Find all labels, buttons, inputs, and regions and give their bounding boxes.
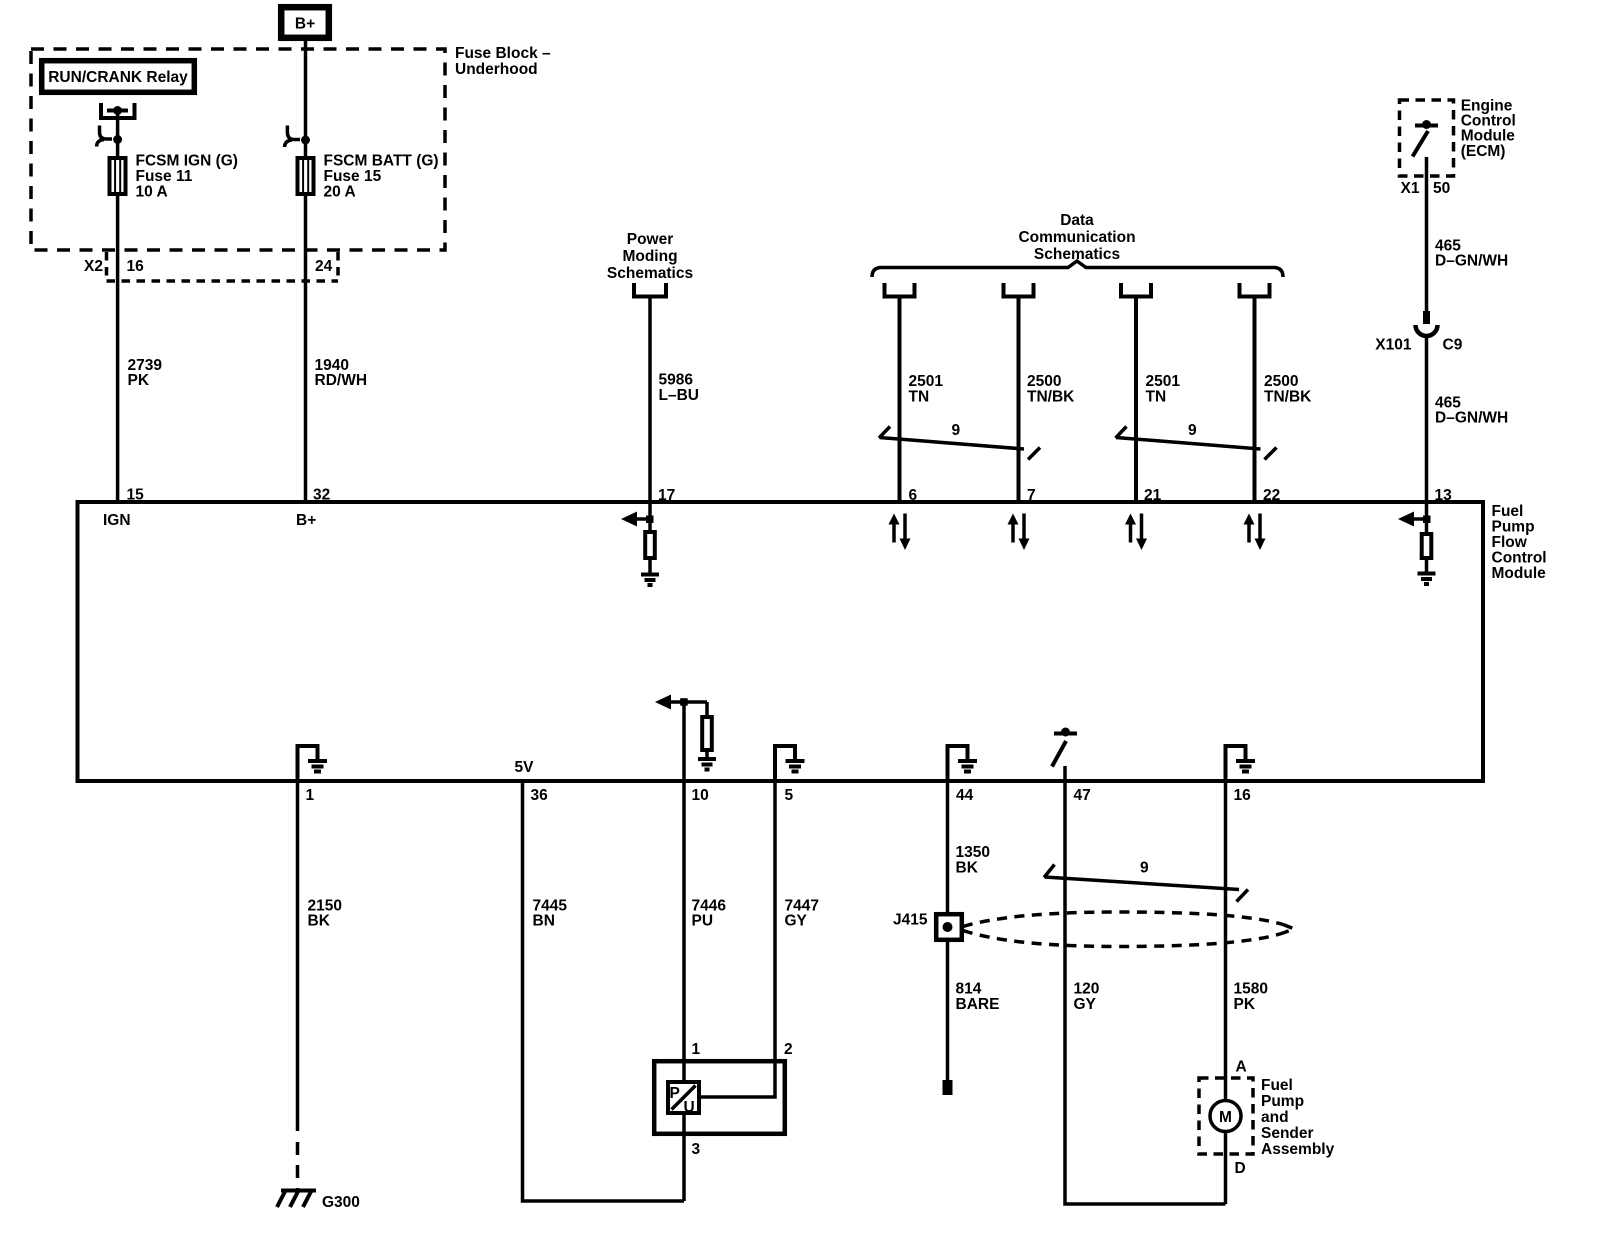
svg-text:C9: C9 <box>1443 337 1463 354</box>
svg-text:47: 47 <box>1074 787 1091 804</box>
svg-text:D–GN/WH: D–GN/WH <box>1435 410 1508 427</box>
svg-text:Fuel: Fuel <box>1261 1077 1293 1094</box>
wire 1940 RD/WH <box>304 196 308 502</box>
splice J415 <box>936 914 962 940</box>
svg-text:22: 22 <box>1263 487 1280 504</box>
svg-text:Flow: Flow <box>1492 534 1528 551</box>
svg-text:Pump: Pump <box>1261 1093 1304 1110</box>
svg-text:X1: X1 <box>1401 180 1420 197</box>
svg-text:B+: B+ <box>295 16 315 33</box>
svg-text:814: 814 <box>956 981 982 998</box>
svg-text:21: 21 <box>1144 487 1162 504</box>
connector X2 dashed outline <box>107 252 339 281</box>
label Fuel Pump and Sender Assembly <box>1261 1077 1335 1158</box>
svg-text:PK: PK <box>128 372 150 389</box>
svg-text:9: 9 <box>1188 422 1197 439</box>
wire 814 BARE <box>946 940 950 1080</box>
resistor (pin 17 termination) <box>645 532 655 558</box>
svg-text:Assembly: Assembly <box>1261 1141 1335 1158</box>
label Engine Control Module (ECM) <box>1461 98 1516 161</box>
label Data Communication Schematics <box>1018 212 1135 263</box>
brace (data communication) <box>872 261 1283 277</box>
wire dashed to G300 <box>296 1142 300 1191</box>
svg-text:Communication: Communication <box>1018 229 1135 246</box>
wire 7447 GY <box>773 781 777 1059</box>
wire 7446 PU <box>682 781 686 1059</box>
resistor (pin 10 pull-up) <box>705 702 709 717</box>
inline connector X101 C9 <box>1416 311 1438 336</box>
label Power Moding Schematics <box>607 231 693 282</box>
svg-text:7: 7 <box>1027 487 1036 504</box>
svg-text:2: 2 <box>784 1041 793 1058</box>
wire resistor to ground <box>1425 558 1429 573</box>
ground G300 <box>277 1191 316 1208</box>
svg-text:Schematics: Schematics <box>607 265 693 282</box>
P/U transducer symbol <box>668 1082 699 1116</box>
svg-text:IGN: IGN <box>103 512 131 529</box>
svg-text:TN/BK: TN/BK <box>1264 389 1312 406</box>
ground symbol inside module at pin 16 <box>1226 746 1256 781</box>
wire resistor to ground <box>705 750 709 758</box>
ground symbol inside module at pin 5 <box>775 746 805 781</box>
ground symbol inside module at pin 1 <box>298 746 328 781</box>
serial data arrows pin 6 <box>889 514 911 551</box>
svg-text:Module: Module <box>1461 128 1516 145</box>
svg-text:D–GN/WH: D–GN/WH <box>1435 253 1508 270</box>
svg-text:50: 50 <box>1433 180 1450 197</box>
wire 2501 TN (pin 21) <box>1134 297 1138 503</box>
serial data arrows pin 21 <box>1125 514 1147 551</box>
svg-text:BARE: BARE <box>956 996 1000 1013</box>
svg-text:Fuse 11: Fuse 11 <box>136 168 193 185</box>
fuse block - underhood dashed box <box>31 49 445 250</box>
wire from B+ to fuse 15 <box>304 41 308 156</box>
ground (pin 13) <box>1418 574 1436 585</box>
twisted pair symbol 9 (pins 47-16) <box>1044 860 1248 902</box>
svg-text:TN: TN <box>909 389 930 406</box>
wire 7445 BN <box>523 781 685 1201</box>
serial data arrows pin 22 <box>1244 514 1266 551</box>
wire pin13 to resistor <box>1425 502 1429 534</box>
svg-text:17: 17 <box>658 487 675 504</box>
twisted pair symbol 9 (pins 6-7) <box>879 422 1040 460</box>
svg-text:36: 36 <box>531 787 549 804</box>
ground (pin 10) <box>698 759 716 770</box>
off-page connector (pin 22) <box>1240 283 1270 297</box>
wire pin17 to resistor <box>648 502 652 532</box>
svg-text:TN: TN <box>1146 389 1167 406</box>
svg-text:1: 1 <box>306 787 315 804</box>
svg-text:2501: 2501 <box>909 373 944 390</box>
bare wire end <box>943 1080 953 1095</box>
svg-text:6: 6 <box>909 487 918 504</box>
svg-text:20 A: 20 A <box>324 184 356 201</box>
svg-text:X101: X101 <box>1375 337 1412 354</box>
wire FPR pin1 internal <box>682 1059 686 1082</box>
svg-text:Module: Module <box>1492 565 1547 582</box>
resistor (pin 13 termination) <box>1422 534 1432 558</box>
ground (pin 17) <box>641 575 659 586</box>
svg-text:13: 13 <box>1435 487 1453 504</box>
wire pump D to bottom <box>1224 1132 1228 1205</box>
switch symbol inside module at pin 47 <box>1052 728 1077 782</box>
svg-text:3: 3 <box>692 1141 701 1158</box>
svg-text:1: 1 <box>692 1041 701 1058</box>
wire FPR pin2 internal <box>699 1061 775 1097</box>
wire 1580 PK <box>1224 781 1228 1078</box>
fuse F15 20A <box>298 158 314 194</box>
svg-text:Fuse Block –: Fuse Block – <box>455 45 551 62</box>
svg-text:9: 9 <box>952 422 961 439</box>
module ECM dashed box <box>1400 100 1454 176</box>
switch contact at fuse 15 <box>285 126 311 148</box>
svg-text:G300: G300 <box>322 1194 360 1211</box>
svg-text:16: 16 <box>1234 787 1252 804</box>
svg-text:PK: PK <box>1234 996 1256 1013</box>
svg-text:D: D <box>1235 1160 1246 1177</box>
wire 2500 TN/BK (pin 7) <box>1017 297 1021 503</box>
svg-text:BK: BK <box>308 913 331 930</box>
svg-text:X2: X2 <box>84 258 103 275</box>
ground symbol inside module at pin 44 <box>948 746 978 781</box>
svg-text:1350: 1350 <box>956 844 990 861</box>
signal arrow at pin 13 <box>1398 512 1431 527</box>
wire 2150 BK <box>296 781 300 1131</box>
off-page connector (power moding) <box>634 283 666 297</box>
svg-text:5V: 5V <box>515 759 535 776</box>
wire relay to fuse 11 <box>116 110 120 156</box>
wire pin10 internal <box>682 702 686 781</box>
wire 2501 TN (pin 6) <box>898 297 902 503</box>
svg-text:L–BU: L–BU <box>659 387 699 404</box>
svg-text:BK: BK <box>956 860 979 877</box>
svg-text:2500: 2500 <box>1027 373 1061 390</box>
wire 1350 BK <box>946 781 950 912</box>
wire 2739 PK <box>116 196 120 502</box>
svg-text:16: 16 <box>127 258 145 275</box>
svg-text:5986: 5986 <box>659 372 694 389</box>
svg-text:24: 24 <box>315 258 333 275</box>
svg-text:Moding: Moding <box>622 248 677 265</box>
wire 2500 TN/BK (pin 22) <box>1253 297 1257 503</box>
svg-text:B+: B+ <box>296 512 316 529</box>
relay RUN/CRANK Relay <box>42 61 195 93</box>
svg-text:FCSM IGN (G): FCSM IGN (G) <box>136 153 238 170</box>
serial data arrows pin 7 <box>1008 514 1030 551</box>
wire 465 D-GN/WH (upper) <box>1425 157 1429 311</box>
motor M (fuel pump) <box>1210 1101 1241 1132</box>
svg-text:and: and <box>1261 1109 1289 1126</box>
svg-text:2501: 2501 <box>1146 373 1181 390</box>
twisted pair symbol 9 (pins 21-22) <box>1116 422 1277 460</box>
svg-text:RD/WH: RD/WH <box>315 372 368 389</box>
svg-text:120: 120 <box>1074 981 1100 998</box>
fuse F11 10A <box>110 158 126 194</box>
wire resistor to ground <box>648 558 652 574</box>
switch contact at fuse 11 <box>97 126 123 147</box>
svg-text:10 A: 10 A <box>136 184 168 201</box>
wire 5986 L-BU <box>648 297 652 503</box>
wire FPR pin3 <box>682 1113 686 1201</box>
svg-text:1580: 1580 <box>1234 981 1268 998</box>
svg-text:P: P <box>670 1085 680 1102</box>
svg-text:GY: GY <box>785 913 808 930</box>
off-page connector (pin 6) <box>885 283 915 297</box>
svg-text:PU: PU <box>692 913 714 930</box>
fuel pump assembly dashed box <box>1199 1078 1253 1154</box>
svg-text:Pump: Pump <box>1492 519 1535 536</box>
svg-text:BN: BN <box>533 913 555 930</box>
wire pump A <box>1224 1078 1228 1101</box>
relay contact bracket <box>101 103 135 118</box>
ECM driver switch <box>1413 120 1439 157</box>
svg-text:M: M <box>1219 1109 1232 1126</box>
wire 120 GY <box>1065 781 1226 1204</box>
wire 465 D-GN/WH (lower) <box>1425 337 1429 503</box>
label Fuel Pump Flow Control Module <box>1492 503 1547 582</box>
svg-text:Data: Data <box>1060 212 1094 229</box>
svg-text:J415: J415 <box>893 912 928 929</box>
signal arrow at pin 10 <box>655 695 707 710</box>
svg-text:RUN/CRANK Relay: RUN/CRANK Relay <box>48 69 188 86</box>
svg-text:2500: 2500 <box>1264 373 1298 390</box>
module Fuel Pump Flow Control Module box <box>78 502 1484 781</box>
svg-text:Sender: Sender <box>1261 1125 1314 1142</box>
svg-text:5: 5 <box>785 787 794 804</box>
off-page connector (pin 21) <box>1121 283 1151 297</box>
svg-text:Control: Control <box>1492 550 1547 567</box>
signal arrow at pin 17 <box>621 512 654 527</box>
svg-text:10: 10 <box>692 787 709 804</box>
sensor Fuel Rail Pressure FPR box <box>654 1061 785 1134</box>
svg-text:Fuel: Fuel <box>1492 503 1524 520</box>
svg-text:GY: GY <box>1074 996 1097 1013</box>
node B+ <box>281 7 329 38</box>
svg-text:44: 44 <box>956 787 974 804</box>
svg-text:A: A <box>1236 1059 1247 1076</box>
svg-text:TN/BK: TN/BK <box>1027 389 1075 406</box>
svg-text:FSCM BATT (G): FSCM BATT (G) <box>324 153 439 170</box>
svg-text:Fuse 15: Fuse 15 <box>324 168 382 185</box>
svg-text:(ECM): (ECM) <box>1461 143 1506 160</box>
svg-text:Underhood: Underhood <box>455 61 538 78</box>
off-page connector (pin 7) <box>1004 283 1034 297</box>
shield dashed loop around J415 <box>963 912 1294 947</box>
svg-text:Power: Power <box>627 231 674 248</box>
svg-text:9: 9 <box>1140 860 1149 877</box>
